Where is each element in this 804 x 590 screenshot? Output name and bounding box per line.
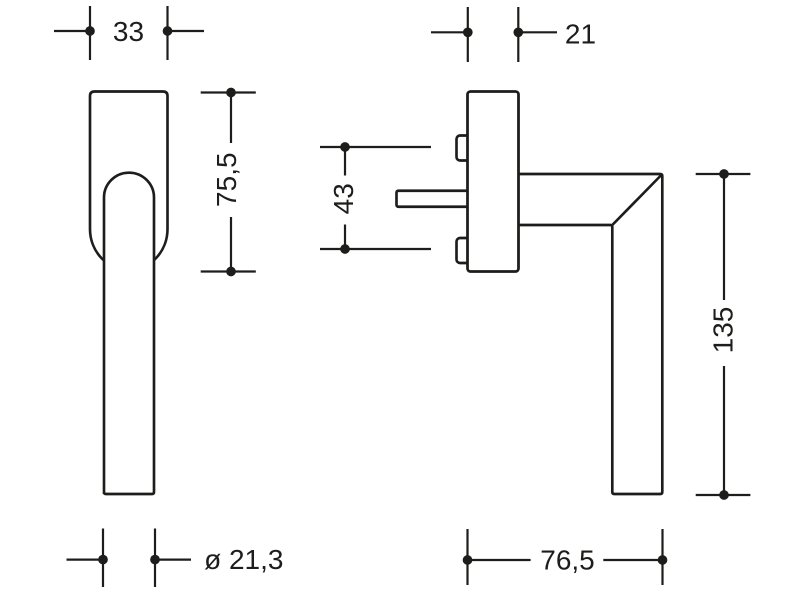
dim 33: right tick [166, 6, 168, 60]
dim 76,5: right dot [658, 555, 668, 565]
dim 33: right line [166, 30, 205, 32]
dim 75,5: bottom segment [230, 217, 232, 272]
dim 33: left dot [85, 26, 95, 36]
svg-text:135: 135 [707, 307, 738, 354]
dim 135: top dot [719, 169, 729, 179]
dim 75,5: bottom tick [201, 270, 256, 272]
dim 21,3: left tick [102, 529, 104, 588]
dim 135: top tick [696, 173, 751, 175]
dim 43: bottom dot [340, 244, 350, 254]
dim 21,3: right dot [150, 555, 160, 565]
svg-text:76,5: 76,5 [540, 544, 595, 575]
dim 75,5: top dot [226, 88, 236, 98]
dim 135: bottom tick [696, 494, 751, 496]
side view: spindle [397, 191, 471, 207]
svg-text:ø 21,3: ø 21,3 [204, 544, 283, 575]
dim 75,5: bottom dot [226, 267, 236, 277]
dim 76,5: left dot [463, 555, 473, 565]
dim 75,5: top segment [230, 93, 232, 144]
side view: handle arm and vertical bar outline [519, 174, 663, 494]
dim 135: bottom dot [719, 490, 729, 500]
dim 76,5: right tick [661, 529, 663, 585]
dim 33: left tick [89, 6, 91, 60]
side view: mitre corner diagonal [612, 174, 662, 225]
dim 76,5: left tick [466, 529, 468, 585]
dim 135: top segment [723, 174, 725, 300]
dim 43: top dot [340, 142, 350, 152]
dim 76,5: left line [468, 559, 531, 561]
svg-text:75,5: 75,5 [211, 152, 242, 207]
dim 21: right tick [517, 7, 519, 62]
dim 43: top tick [320, 146, 431, 148]
side view: top mounting clip [457, 136, 471, 161]
dim 21: left tick [467, 7, 469, 62]
dim 21: right line [517, 31, 557, 33]
dim 75,5: top tick [201, 91, 256, 93]
dim 33: left line [54, 30, 92, 32]
dim 43: bottom segment [344, 225, 346, 250]
dim 21,3: left line [67, 558, 105, 560]
dim 43: bottom tick [320, 248, 431, 250]
side view: bottom mounting clip [457, 238, 471, 263]
dim 21: left line [431, 31, 469, 33]
svg-text:21: 21 [565, 19, 596, 50]
dim 21: right dot [513, 27, 523, 37]
svg-text:43: 43 [328, 183, 359, 214]
front view: grip stem with arched top [104, 173, 154, 494]
dim 33: right dot [163, 26, 173, 36]
dim 43: top segment [344, 147, 346, 176]
side view: rosette plate [468, 92, 519, 272]
dim 21,3: right tick [154, 529, 156, 588]
dim 21,3: right line [154, 558, 192, 560]
dim 76,5: right line [603, 559, 662, 561]
front view: handle plate outline [90, 92, 168, 271]
svg-text:33: 33 [113, 16, 144, 47]
dim 135: bottom segment [723, 366, 725, 495]
dim 21: left dot [463, 27, 473, 37]
dim 21,3: left dot [98, 555, 108, 565]
